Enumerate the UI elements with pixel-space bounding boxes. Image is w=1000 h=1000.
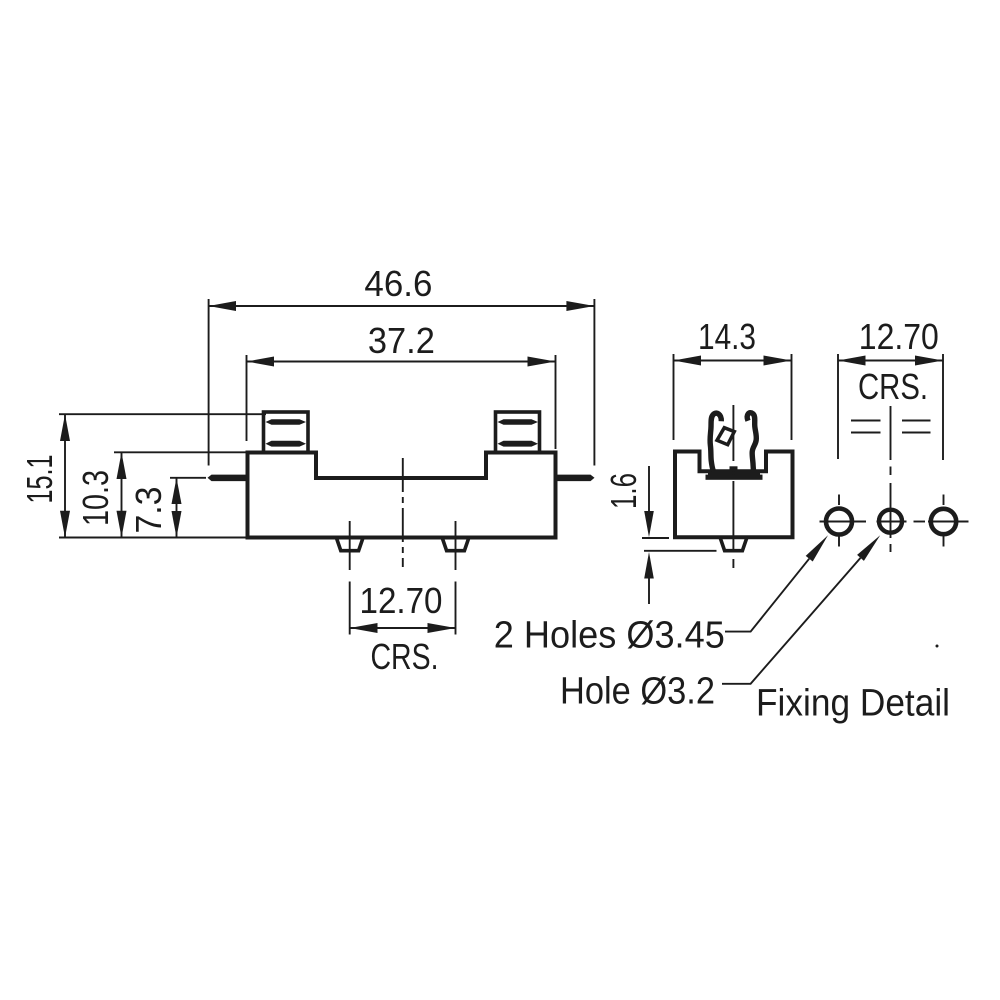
hole 3 (O3.45) bbox=[931, 509, 956, 534]
hole 1 vertical crosshair lower bbox=[838, 534, 840, 547]
dimension 10.3 line bbox=[121, 452, 123, 537]
dimension 12.70 CRS extension line left bbox=[349, 582, 351, 635]
leader line for hole O3.2 bbox=[722, 558, 861, 684]
bottom extension line (left view) bbox=[59, 537, 249, 539]
dimension 14.3 extension line right bbox=[791, 354, 793, 440]
dimension 12.70 arrow right (fixing detail) bbox=[915, 356, 943, 366]
dimension 10.3 arrow bottom bbox=[117, 511, 127, 538]
svg-text:12.70: 12.70 bbox=[360, 580, 443, 621]
dimension 14.3 arrow left bbox=[674, 356, 702, 366]
clip base bump bbox=[730, 466, 738, 472]
hole 1 vertical crosshair upper bbox=[838, 495, 840, 506]
pin left centerline bbox=[349, 521, 351, 570]
clip right arm (side view) bbox=[747, 413, 756, 471]
dimension 37.2 extension line right bbox=[555, 355, 557, 449]
dimension 10.3 arrow top bbox=[117, 452, 127, 479]
svg-text:10.3: 10.3 bbox=[75, 470, 116, 526]
leader line for 2 holes O3.45 bbox=[725, 559, 809, 632]
svg-text:Fixing Detail: Fixing Detail bbox=[756, 683, 950, 725]
dimension 46.6 arrow left bbox=[209, 301, 236, 311]
fixing centerline segment 3 bbox=[890, 483, 892, 538]
dimension 10.3 extension line bbox=[114, 451, 246, 453]
fuse clip left inner bar 2 bbox=[266, 441, 307, 447]
dimension 1.6 arrow down bbox=[644, 511, 654, 537]
crosshair dash between holes 2 and 3 bbox=[914, 521, 926, 523]
dimension 15.1 line bbox=[64, 414, 66, 537]
dimension 1.6 extension tick upper bbox=[642, 537, 669, 539]
leader arrow for 2 holes O3.45 bbox=[806, 535, 828, 561]
dimension 7.3 line bbox=[176, 478, 178, 538]
fixing centerline segment 2 bbox=[890, 467, 892, 476]
svg-text:37.2: 37.2 bbox=[368, 320, 435, 361]
hole 2 horizontal crosshair bbox=[877, 521, 907, 523]
dimension 1.6 upper stem bbox=[648, 466, 650, 512]
dimension 37.2 arrow right bbox=[528, 357, 556, 367]
svg-text:12.70: 12.70 bbox=[859, 316, 939, 357]
side view centerline bbox=[732, 405, 734, 568]
clip left arm (side view) bbox=[710, 413, 721, 471]
dimension 7.3 arrow bottom bbox=[172, 511, 182, 538]
extension line right hole bbox=[942, 354, 944, 460]
body edge mark left upper bbox=[851, 420, 881, 422]
hole 3 vertical crosshair upper bbox=[943, 495, 945, 506]
fuse clip left inner bar 1 bbox=[266, 419, 307, 425]
svg-text:Hole Ø3.2: Hole Ø3.2 bbox=[560, 671, 715, 713]
svg-text:CRS.: CRS. bbox=[858, 366, 928, 407]
dimension 15.1 arrow bottom bbox=[60, 511, 70, 538]
dimension 1.6 lower stem bbox=[648, 578, 650, 604]
body outline (side view) bbox=[675, 452, 793, 538]
dimension 14.3 line bbox=[674, 360, 792, 362]
fuse clip left (front) bbox=[264, 412, 309, 453]
svg-text:CRS.: CRS. bbox=[371, 636, 439, 677]
dimension 46.6 extension line right bbox=[593, 299, 595, 466]
clip grip tab (side view) bbox=[717, 428, 734, 445]
dimension 46.6 arrow right bbox=[566, 301, 594, 311]
svg-text:1.6: 1.6 bbox=[603, 473, 644, 509]
clip base bar (side view) bbox=[708, 471, 760, 476]
fixing centerline segment 1 bbox=[890, 406, 892, 460]
hole 1 (O3.45) bbox=[826, 509, 852, 535]
dimension 46.6 extension line left bbox=[208, 299, 210, 466]
leader arrow for hole O3.2 bbox=[857, 535, 880, 561]
svg-text:15.1: 15.1 bbox=[19, 455, 60, 504]
svg-text:14.3: 14.3 bbox=[698, 316, 756, 357]
stray dot artifact bbox=[936, 645, 939, 648]
dimension 12.70 arrow left (fixing detail) bbox=[838, 356, 866, 366]
extension line left hole bbox=[837, 354, 839, 459]
dimension 37.2 line bbox=[247, 361, 556, 363]
dimension 14.3 extension line left bbox=[673, 354, 675, 440]
dimension 37.2 extension line left bbox=[246, 355, 248, 441]
dimension 7.3 extension line bbox=[170, 477, 206, 479]
lead right bbox=[554, 475, 595, 482]
dimension 7.3 arrow top bbox=[172, 478, 182, 504]
body edge mark right upper bbox=[902, 420, 931, 422]
dimension 12.70 CRS line bbox=[350, 627, 456, 629]
dimension 12.70 CRS arrow left bbox=[350, 623, 378, 633]
body edge mark right lower bbox=[902, 432, 931, 434]
fuse clip right inner bar 1 bbox=[498, 419, 539, 425]
hole 1 horizontal crosshair bbox=[820, 521, 867, 523]
dimension 12.70 CRS arrow right bbox=[428, 623, 456, 633]
body edge mark left lower bbox=[851, 432, 881, 434]
dimension 37.2 arrow left bbox=[247, 357, 275, 367]
dimension 15.1 arrow top bbox=[60, 414, 70, 441]
lead left bbox=[208, 475, 250, 482]
svg-text:7.3: 7.3 bbox=[128, 487, 169, 534]
dimension 1.6 arrow up bbox=[644, 552, 654, 579]
hole 3 horizontal crosshair bbox=[928, 521, 969, 523]
dimension 12.70 line (fixing detail) bbox=[838, 360, 943, 362]
dimension 14.3 arrow right bbox=[764, 356, 792, 366]
front view centerline bbox=[402, 458, 404, 567]
fuse clip right inner bar 2 bbox=[498, 441, 539, 447]
dimension 12.70 CRS extension line right bbox=[455, 582, 457, 635]
pin right (front) bbox=[443, 539, 469, 551]
pin left (front) bbox=[337, 539, 363, 551]
body outline (front view) bbox=[248, 453, 556, 538]
pin (side view) bbox=[721, 539, 747, 551]
hole 3 vertical crosshair lower bbox=[943, 534, 945, 547]
svg-text:2 Holes Ø3.45: 2 Holes Ø3.45 bbox=[494, 615, 725, 657]
hole 2 (O3.2) bbox=[879, 510, 902, 533]
fixing centerline segment 4 bbox=[890, 544, 892, 552]
svg-text:46.6: 46.6 bbox=[364, 263, 432, 304]
fuse clip right (front) bbox=[496, 412, 540, 453]
pin right centerline bbox=[455, 521, 457, 570]
dimension 46.6 line bbox=[209, 305, 595, 307]
dimension 1.6 extension tick lower bbox=[644, 550, 717, 552]
dimension 15.1 top extension line bbox=[59, 413, 266, 415]
